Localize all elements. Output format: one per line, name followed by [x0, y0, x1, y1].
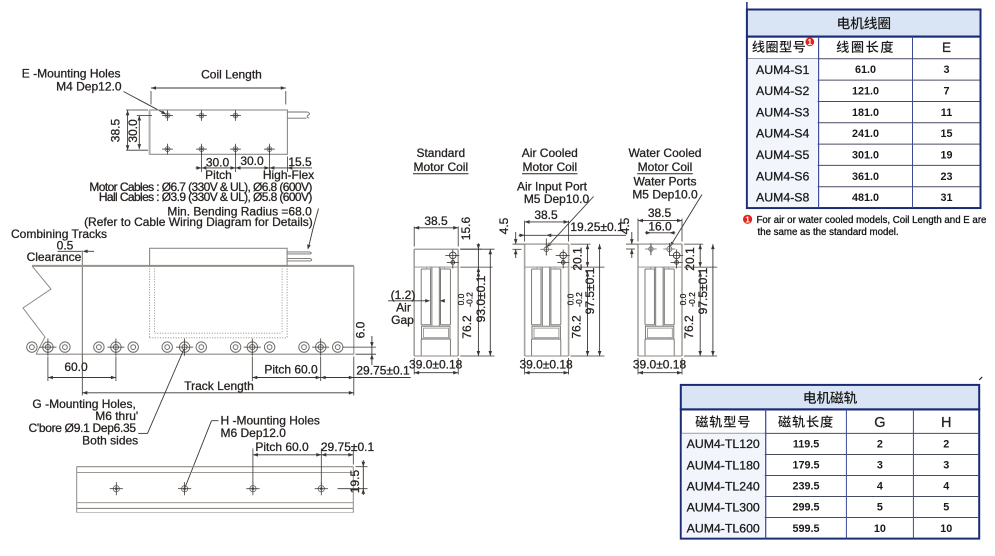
- water cooled section coil blade: [655, 267, 657, 326]
- coil top view body outline: [150, 110, 288, 154]
- svg-text:15.6: 15.6: [459, 216, 473, 240]
- svg-text:38.5: 38.5: [648, 206, 672, 220]
- leader from cable note to cables: [309, 209, 319, 247]
- svg-text:76.2: 76.2: [460, 315, 474, 339]
- svg-text:Hall Cables : Ø3.9 (330V & UL): Hall Cables : Ø3.9 (330V & UL), Ø5.8 (60…: [99, 190, 313, 204]
- svg-text:Both sides: Both sides: [82, 433, 138, 447]
- svg-text:H: H: [941, 415, 951, 431]
- air cooled section bottom edge: [525, 355, 569, 357]
- svg-text:38.5: 38.5: [534, 208, 558, 222]
- svg-text:7: 7: [943, 85, 949, 97]
- svg-text:29.75±0.1: 29.75±0.1: [356, 364, 410, 378]
- water cooled section side mounting hole: [673, 252, 680, 259]
- svg-text:301.0: 301.0: [852, 149, 879, 161]
- svg-text:Coil Length: Coil Length: [201, 68, 262, 82]
- svg-text:M5 Dep10.0: M5 Dep10.0: [524, 192, 590, 206]
- standard section right magnet wall: [440, 269, 442, 325]
- air cooled section top plate: [525, 243, 569, 245]
- svg-text:60.0: 60.0: [64, 360, 88, 374]
- coil block hidden outline dashed: [149, 266, 151, 338]
- svg-text:23: 23: [940, 171, 952, 183]
- svg-text:39.0±0.18: 39.0±0.18: [519, 357, 573, 371]
- air cooled section channel floor: [532, 324, 541, 326]
- water cooled section top plate: [638, 243, 682, 245]
- standard section base plate: [422, 326, 450, 339]
- svg-text:Standard: Standard: [416, 146, 465, 160]
- svg-text:Clearance: Clearance: [27, 250, 82, 264]
- standard section channel floor: [421, 324, 430, 326]
- svg-text:AUM4-TL600: AUM4-TL600: [687, 521, 760, 535]
- svg-text:31: 31: [940, 192, 952, 204]
- svg-text:For air or water cooled models: For air or water cooled models, Coil Len…: [757, 215, 987, 226]
- svg-text:Motor Coil: Motor Coil: [413, 160, 468, 174]
- svg-text:11: 11: [941, 107, 952, 119]
- water cooled section right magnet wall: [663, 269, 665, 325]
- water cooled section left magnet wall: [644, 269, 646, 325]
- svg-text:Track Length: Track Length: [184, 379, 254, 393]
- svg-text:239.5: 239.5: [793, 481, 820, 493]
- track right edge: [353, 266, 355, 354]
- motor coil table first column shading: [748, 59, 818, 207]
- svg-text:1: 1: [745, 214, 750, 224]
- air cooled section lower base: [532, 338, 561, 340]
- air cooled section side mounting hole: [560, 252, 567, 259]
- cables exiting coil side view: [287, 251, 309, 253]
- svg-text:179.5: 179.5: [793, 460, 820, 472]
- svg-text:19: 19: [940, 149, 952, 161]
- air cooled section right magnet wall: [550, 269, 552, 325]
- svg-text:3: 3: [943, 64, 949, 76]
- svg-text:Water Cooled: Water Cooled: [629, 146, 702, 160]
- bottom bar outline: [77, 466, 354, 468]
- standard section outer verticals: [413, 249, 415, 356]
- standard section bottom edge: [414, 355, 458, 357]
- E mounting holes top row: [165, 113, 170, 118]
- svg-text:76.2: 76.2: [682, 315, 696, 339]
- svg-text:15: 15: [940, 128, 952, 140]
- svg-text:10: 10: [874, 523, 886, 535]
- motor coil table header cells: [752, 40, 764, 52]
- magnet track table title bar: [681, 385, 979, 410]
- svg-text:29.75±0.1: 29.75±0.1: [321, 440, 375, 454]
- svg-text:AUM4-TL120: AUM4-TL120: [687, 437, 760, 451]
- svg-text:Motor Coil: Motor Coil: [638, 160, 693, 174]
- svg-text:93.0±0.1: 93.0±0.1: [474, 275, 488, 322]
- svg-text:181.0: 181.0: [852, 107, 879, 119]
- svg-text:5: 5: [877, 502, 883, 514]
- svg-text:76.2: 76.2: [569, 315, 583, 339]
- leader to water port: [671, 195, 702, 246]
- svg-text:61.0: 61.0: [855, 64, 876, 76]
- svg-text:6.0: 6.0: [354, 321, 368, 338]
- svg-text:4: 4: [877, 481, 883, 493]
- leader to air input port: [548, 197, 594, 246]
- air cooled section outer verticals: [524, 244, 526, 356]
- svg-text:1: 1: [808, 38, 813, 47]
- svg-text:3: 3: [877, 460, 883, 472]
- svg-text:M4 Dep12.0: M4 Dep12.0: [56, 79, 122, 93]
- svg-text:361.0: 361.0: [852, 171, 879, 183]
- svg-text:39.0±0.18: 39.0±0.18: [409, 357, 463, 371]
- svg-text:2: 2: [943, 439, 949, 451]
- svg-text:4.5: 4.5: [618, 217, 632, 234]
- svg-text:AUM4-TL300: AUM4-TL300: [687, 500, 760, 514]
- track top edge: [32, 265, 354, 267]
- svg-text:the same as the standard model: the same as the standard model.: [758, 227, 899, 238]
- svg-text:AUM4-S8: AUM4-S8: [756, 191, 809, 205]
- water cooled section channel floor: [645, 324, 654, 326]
- svg-text:Pitch 60.0: Pitch 60.0: [264, 363, 318, 377]
- svg-text:Air Cooled: Air Cooled: [522, 146, 578, 160]
- svg-text:299.5: 299.5: [793, 502, 820, 514]
- svg-text:241.0: 241.0: [852, 128, 879, 140]
- svg-text:M5 Dep10.0: M5 Dep10.0: [632, 188, 698, 202]
- leader from H label to hole: [212, 420, 219, 422]
- pitch dimension lines below coil: [201, 153, 203, 173]
- air cooled section base plate: [532, 326, 560, 339]
- standard section left magnet wall: [420, 269, 422, 325]
- svg-text:Gap: Gap: [391, 313, 414, 327]
- coil top view cable stub: [287, 111, 307, 113]
- svg-text:30.0: 30.0: [126, 119, 140, 143]
- magnet track table grid: [681, 409, 979, 538]
- svg-text:AUM4-TL240: AUM4-TL240: [687, 479, 760, 493]
- svg-text:G: G: [874, 415, 885, 431]
- svg-text:119.5: 119.5: [793, 439, 819, 451]
- svg-text:2: 2: [877, 439, 883, 451]
- svg-text:97.5±0.1: 97.5±0.1: [696, 267, 710, 314]
- E mounting holes bottom row: [165, 147, 170, 152]
- water cooled section base plate: [645, 326, 673, 339]
- svg-text:(Refer to Cable Wiring Diagram: (Refer to Cable Wiring Diagram for Detai…: [84, 215, 313, 229]
- track bottom edge: [36, 353, 354, 355]
- standard section lower base: [421, 338, 450, 340]
- coil block on track - solid top: [150, 248, 288, 266]
- svg-text:39.0±0.18: 39.0±0.18: [633, 357, 687, 371]
- magnet track table first column shading: [682, 433, 765, 537]
- svg-text:AUM4-S6: AUM4-S6: [756, 169, 809, 183]
- svg-text:AUM4-S3: AUM4-S3: [756, 105, 809, 119]
- air cooled section coil blade: [541, 267, 543, 326]
- svg-text:10: 10: [940, 523, 952, 535]
- svg-text:4: 4: [943, 481, 949, 493]
- track mounting holes row: [27, 342, 37, 352]
- svg-text:121.0: 121.0: [852, 85, 879, 97]
- svg-text:16.0: 16.0: [648, 219, 672, 233]
- svg-text:19.25±0.1: 19.25±0.1: [570, 220, 624, 234]
- svg-text:38.5: 38.5: [109, 118, 123, 142]
- air input port hole: [544, 247, 549, 252]
- leader from G label to hole: [138, 432, 147, 434]
- magnet track table title text: [804, 391, 816, 404]
- magnet track table header cells: [695, 415, 708, 427]
- motor coil table grid: [747, 37, 981, 208]
- svg-text:Water Ports: Water Ports: [634, 174, 697, 188]
- note below motor coil table: [743, 215, 752, 224]
- svg-text:4.5: 4.5: [497, 217, 511, 234]
- water cooled section outer verticals: [637, 244, 639, 356]
- svg-text:5: 5: [943, 502, 949, 514]
- standard section top plate: [414, 248, 458, 250]
- track combining junction line: [81, 251, 83, 355]
- motor coil table title bar: [747, 10, 981, 37]
- svg-text:97.5±0.1: 97.5±0.1: [583, 267, 597, 314]
- H mounting holes: [113, 486, 119, 492]
- svg-text:30.0: 30.0: [240, 154, 264, 168]
- svg-text:481.0: 481.0: [852, 192, 879, 204]
- svg-text:M6 Dep12.0: M6 Dep12.0: [221, 426, 287, 440]
- svg-text:AUM4-S2: AUM4-S2: [756, 84, 809, 98]
- svg-text:-0.2: -0.2: [465, 292, 475, 307]
- water port holes: [649, 247, 653, 251]
- svg-text:E: E: [942, 40, 951, 55]
- leader line to E hole: [124, 92, 164, 113]
- svg-text:3: 3: [943, 460, 949, 472]
- svg-text:38.5: 38.5: [424, 214, 448, 228]
- air cooled section left magnet wall: [531, 269, 533, 325]
- svg-text:AUM4-S1: AUM4-S1: [756, 63, 809, 77]
- svg-text:Pitch 60.0: Pitch 60.0: [255, 440, 309, 454]
- svg-text:Motor Coil: Motor Coil: [522, 160, 577, 174]
- svg-text:19.5: 19.5: [348, 469, 362, 493]
- svg-text:AUM4-TL180: AUM4-TL180: [687, 458, 760, 472]
- water cooled section lower base: [645, 338, 674, 340]
- track left break zigzag: [23, 266, 51, 354]
- svg-text:599.5: 599.5: [793, 523, 820, 535]
- svg-text:AUM4-S4: AUM4-S4: [756, 127, 809, 141]
- standard section coil blade: [431, 267, 433, 326]
- water cooled section bottom edge: [638, 355, 682, 357]
- svg-text:AUM4-S5: AUM4-S5: [756, 148, 809, 162]
- motor coil table title text: [838, 17, 850, 30]
- standard section side mounting hole: [450, 252, 457, 259]
- track G mounting holes with crosshair: [43, 342, 53, 352]
